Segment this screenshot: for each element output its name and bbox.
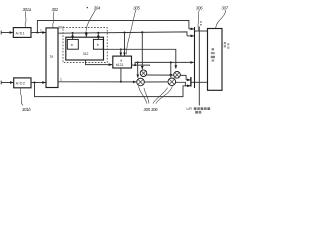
long drop wire to left upper mixer xyxy=(141,32,143,69)
switch bar vertical xyxy=(194,27,196,88)
wire right upper mixer to lower switch xyxy=(180,75,186,80)
svg-text:306: 306 xyxy=(151,107,158,112)
junction on y62 bus right xyxy=(170,61,172,63)
leader mixers right strand1 xyxy=(156,86,173,103)
wire bottom bus xyxy=(35,83,187,97)
svg-text:1: 1 xyxy=(60,77,62,81)
wire big box bottom out to middle box xyxy=(86,60,113,65)
wire branch up to y62 bus xyxy=(135,62,194,65)
arrow into lower switch lower input xyxy=(185,85,190,87)
DA box vertical text blobs xyxy=(211,48,215,61)
leader 305 xyxy=(126,10,136,55)
svg-text:301b: 301b xyxy=(22,107,31,112)
svg-text:a: a xyxy=(71,43,73,47)
svg-text:305: 305 xyxy=(133,6,140,11)
svg-text:307: 307 xyxy=(222,5,229,10)
right side output text blobs xyxy=(224,42,230,49)
block selector 302 xyxy=(46,28,58,88)
mixer circle left upper xyxy=(140,70,147,77)
wire input to ADC 301b xyxy=(1,82,13,84)
right small square xyxy=(93,39,103,49)
leader 304 xyxy=(86,10,96,32)
junction on low bus xyxy=(120,81,122,83)
mixer circle right lower xyxy=(168,78,176,86)
wire arrow into upper switch (lower input) xyxy=(187,35,194,37)
svg-text:312: 312 xyxy=(83,52,89,56)
dashed box 303 xyxy=(63,28,107,63)
svg-text:A/D1: A/D1 xyxy=(16,31,26,35)
stub into left small square xyxy=(72,33,74,39)
leader 301a xyxy=(24,12,27,28)
stub into right small square xyxy=(97,33,99,39)
wire right lower mixer to lower switch xyxy=(176,82,186,86)
wire middle box down to low bus xyxy=(120,68,122,82)
leader 307 xyxy=(216,10,226,28)
svg-text:303: 303 xyxy=(58,25,64,29)
lower switch bar xyxy=(190,77,192,87)
svg-text:301a: 301a xyxy=(23,7,32,12)
stray mark xyxy=(87,7,88,8)
bottom right control text xyxy=(187,107,211,113)
node input tick left top xyxy=(0,31,2,35)
stub into big box xyxy=(85,33,87,37)
wire ADC 301b to selector xyxy=(31,82,46,84)
junction node top xyxy=(36,31,38,33)
stub into right lower mixer xyxy=(170,62,172,77)
leader 301b xyxy=(20,88,23,106)
svg-text:b: b xyxy=(97,43,99,47)
junction node bottom xyxy=(33,81,35,83)
svg-text:A/D2: A/D2 xyxy=(16,82,26,86)
leader mixers left strand1 xyxy=(139,86,147,103)
wire upper switch out to DA box xyxy=(195,30,208,32)
svg-text:304: 304 xyxy=(94,6,101,11)
svg-text:b121: b121 xyxy=(116,63,124,67)
arrow into lower switch upper input xyxy=(186,79,190,81)
block ADC 301b xyxy=(14,78,31,88)
wire low bus from selector to left lower mixer xyxy=(58,81,136,83)
left small square xyxy=(67,39,78,49)
stub into left lower mixer xyxy=(137,62,139,77)
junction on y62 bus xyxy=(137,61,139,63)
wire y53 from big box right xyxy=(104,49,176,68)
block DA 307 xyxy=(208,29,223,91)
svg-text:1a: 1a xyxy=(49,55,53,59)
wire left upper mixer to right upper mixer xyxy=(147,74,174,76)
svg-text:306: 306 xyxy=(196,5,203,10)
junction dots on mid bus xyxy=(72,32,74,34)
leader mixers right strand2 xyxy=(153,88,168,104)
drop into middle box second xyxy=(120,49,122,55)
leader 302 xyxy=(53,12,54,28)
leader 306 xyxy=(198,10,199,30)
node input tick left bottom xyxy=(0,81,2,85)
svg-text:L/R: L/R xyxy=(187,107,193,111)
svg-text:305: 305 xyxy=(144,107,151,112)
block middle box 305 xyxy=(113,56,132,68)
mixer circle left lower xyxy=(137,78,145,86)
svg-text:1: 1 xyxy=(40,28,42,32)
junction on middle out xyxy=(134,64,136,66)
wire input to ADC 301a xyxy=(1,32,13,34)
big box 312 xyxy=(66,37,104,60)
wire lower switch out to DA box xyxy=(192,81,208,83)
block ADC 301a xyxy=(13,28,31,38)
wire ADC 301a to selector xyxy=(31,32,46,34)
control line LR xyxy=(198,27,200,106)
wire arrow into upper switch (upper input) xyxy=(189,28,194,30)
svg-text:302: 302 xyxy=(52,7,59,12)
wire mid bus xyxy=(58,32,187,36)
wire left lower mixer to right lower mixer xyxy=(144,81,168,83)
svg-text:a: a xyxy=(120,58,122,62)
tick marks near upper switch xyxy=(200,21,201,25)
mixer circle right upper xyxy=(174,72,181,79)
stub into middle box xyxy=(124,33,126,56)
wire middle box out right xyxy=(132,64,151,66)
leader mixers left strand2 xyxy=(144,88,149,104)
wire riser to top bus xyxy=(37,21,189,33)
